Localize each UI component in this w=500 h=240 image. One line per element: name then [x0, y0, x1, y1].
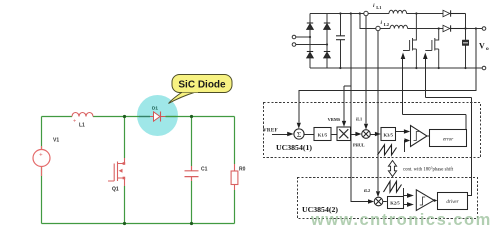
comparator 2 [416, 190, 434, 211]
svg-text:driver: driver [446, 200, 458, 205]
svg-text:C1: C1 [201, 167, 208, 173]
output terminal bottom [482, 66, 486, 70]
svg-text:i: i [381, 20, 383, 26]
comparator 1 [411, 126, 428, 147]
block K2/5 [388, 197, 404, 209]
bridge diode lower-right [324, 52, 330, 58]
svg-text:iL1: iL1 [356, 117, 362, 122]
wire C1 branch vertical [191, 117, 193, 224]
gate drive line 2 with arrow [423, 53, 428, 98]
svg-text:iL2: iL2 [364, 188, 370, 193]
wire left vertical (V1 branch) [41, 117, 43, 224]
svg-text:UC3854(1): UC3854(1) [276, 143, 312, 152]
svg-text:error: error [443, 138, 453, 143]
wire Q1 branch vertical [124, 117, 126, 224]
svg-text:+: + [39, 153, 43, 159]
wire ramp 2 to comparator top input [404, 188, 414, 198]
wire branch-2 takeoff [360, 14, 390, 29]
svg-text:i: i [373, 3, 375, 9]
wire VREF arrow [272, 132, 294, 136]
svg-text:V: V [479, 42, 485, 51]
resistor R0 [231, 164, 238, 190]
junction dots power stage [309, 12, 477, 69]
svg-text:Q1: Q1 [112, 187, 119, 193]
wire right vertical (load branch) [234, 117, 236, 224]
svg-text:L1: L1 [376, 5, 382, 10]
voltage source V1 [33, 146, 50, 176]
svg-text:D1: D1 [152, 106, 158, 111]
wire output top [466, 28, 483, 30]
wire top rail [310, 13, 389, 15]
bridge diode upper-left [307, 23, 313, 29]
gate drive line 1 with arrow [401, 53, 466, 130]
MOSFET M1 [403, 14, 416, 69]
block K1/5 [314, 128, 331, 141]
svg-text:L1: L1 [79, 123, 85, 129]
svg-text:VREF: VREF [263, 128, 278, 133]
diode D1 (SiC diode) [150, 112, 166, 122]
wire gate2 feed horizontal [425, 97, 471, 99]
bridge diode upper-right [324, 23, 330, 29]
wire top right (diode to output node) [166, 116, 235, 118]
svg-text:VRMS: VRMS [328, 117, 341, 122]
wire VRMS sense drop [344, 14, 351, 122]
svg-text:PHUL: PHUL [353, 142, 365, 147]
transistor Q1 (MOSFET) [108, 158, 125, 186]
callout balloon "SiC Diode" [169, 75, 233, 104]
svg-text:K1/5: K1/5 [318, 132, 328, 137]
capacitor DC bus plates [336, 36, 345, 40]
inductor L1 (phase 1) [389, 10, 407, 13]
wire bottom rail [42, 223, 235, 225]
multiplier circle 1 [362, 130, 371, 139]
wire driver2 output up [468, 98, 472, 196]
AC input terminal bottom [292, 43, 296, 47]
bridge diode lower-left [307, 52, 313, 58]
wire i_L1 sense drop [365, 16, 367, 124]
block error amplifier [430, 130, 467, 147]
wire multiplier 2 to K2/5 [383, 201, 387, 203]
wire phase1 to diode [406, 13, 443, 15]
node junction top Q1 [123, 115, 126, 118]
svg-text:SiC Diode: SiC Diode [178, 79, 226, 90]
multiplier circle 2 [374, 197, 383, 206]
wire tint inside highlight [139, 116, 177, 118]
wire bridge left leg [309, 14, 311, 69]
output terminal top [482, 27, 486, 31]
current probe i_L2 [376, 26, 380, 30]
wire top left (node from source to inductor) [42, 116, 73, 118]
block K3/5 [381, 128, 396, 141]
node junction bottom Q1 [123, 222, 126, 225]
wire i_L2 sense drop [377, 31, 379, 191]
svg-text:o: o [486, 46, 489, 52]
wire K2/5 to comparator bottom input [404, 202, 414, 207]
block driver [438, 193, 468, 210]
node junction top C1 [190, 115, 193, 118]
wire Vo feedback [299, 29, 476, 123]
dashed box UC3854(2) [298, 178, 478, 219]
wire top mid (inductor to diode) [93, 116, 150, 118]
inductor L1 [72, 113, 93, 117]
wire AC input bottom [296, 44, 327, 46]
summer node (sigma circle) [294, 129, 304, 139]
output capacitor [462, 40, 469, 46]
svg-text:L2: L2 [384, 22, 390, 27]
block X multiplier [337, 127, 351, 141]
node junction bottom C1 [190, 222, 193, 225]
sawtooth ramp 1 [378, 145, 397, 155]
arrow VRMS into X block [342, 121, 346, 127]
svg-text:www.cntronics.com: www.cntronics.com [310, 211, 492, 229]
highlight circle around SiC diode [137, 95, 178, 136]
wire bridge right leg [326, 14, 328, 69]
boost diode phase 2 [443, 25, 466, 31]
svg-text:cont. with 180°phase shift: cont. with 180°phase shift [403, 167, 454, 172]
double arrow symbol [388, 161, 396, 177]
wire output drop [465, 14, 467, 69]
AC input terminal top [292, 35, 296, 39]
wire bottom rail [310, 67, 482, 69]
svg-text:K2/5: K2/5 [390, 200, 400, 205]
wire multiplier to K3/5 [370, 132, 381, 136]
svg-text:R0: R0 [239, 167, 246, 173]
arrow i_L1 into multiplier circle [364, 124, 368, 130]
arrow feed into multiplier circle 2 from left [368, 199, 374, 203]
svg-text:V1: V1 [53, 138, 59, 144]
svg-text:Σ: Σ [297, 130, 301, 139]
wire K1/5 to X block [331, 134, 337, 136]
wire DC bus capacitor leads [339, 14, 341, 69]
wire K3/5 to comparator top input [396, 129, 411, 133]
boost diode phase 1 [443, 10, 466, 16]
MOSFET M2 [425, 29, 438, 69]
arrow i_L2 into multiplier circle 2 [376, 191, 380, 197]
wire shared multiplier feed to UC3854(2) [351, 86, 369, 202]
wire comparator 2 to driver [434, 199, 438, 202]
wire AC input top [296, 36, 310, 38]
arrow into summer from top [297, 123, 301, 129]
wire ramp to comparator bottom input [404, 138, 410, 152]
wire phase2 to diode [407, 28, 443, 30]
sawtooth ramp 2 [384, 181, 402, 192]
current probe i_L1 [364, 11, 368, 15]
wire summer to K1/5 [304, 134, 314, 136]
svg-text:K3/5: K3/5 [383, 132, 393, 137]
dashed box UC3854(1) [264, 103, 481, 158]
svg-text:+: + [73, 119, 76, 125]
wire X block to multiplier circle [351, 132, 362, 136]
capacitor C1 [185, 166, 199, 181]
wire comparator to error block [427, 135, 430, 137]
inductor L2 (phase 2) [390, 25, 408, 28]
